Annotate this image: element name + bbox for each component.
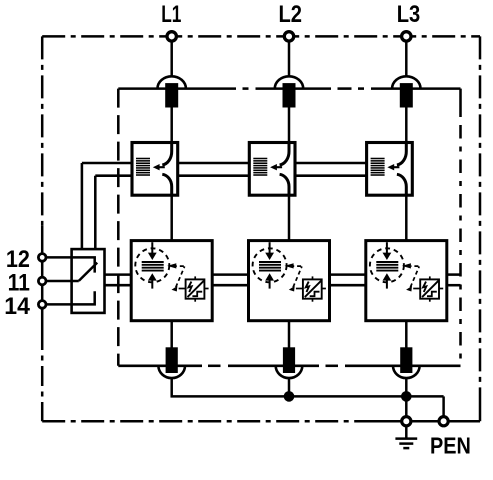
svg-text:PEN: PEN: [430, 432, 471, 459]
junction: [401, 391, 412, 402]
trigger lightning arrow (dashed): [176, 266, 185, 288]
wire: [170, 195, 173, 240]
wire: [170, 41, 173, 77]
triggered spark gap (dashed circle): [135, 248, 169, 282]
top compression arrow: [148, 242, 157, 260]
spark gap electrode stack: [259, 262, 281, 271]
terminal L1: [167, 32, 176, 41]
varistor terminals: [300, 276, 326, 301]
wire: [46, 303, 72, 306]
top horn electrode: [162, 143, 171, 166]
terminal 12: [38, 254, 46, 262]
varistor terminals: [417, 276, 443, 301]
bottom plug-in contact L3 (socket arch): [393, 366, 420, 378]
top horn electrode: [397, 143, 406, 166]
triggered spark gap (dashed circle): [370, 248, 404, 282]
bottom compression arrow: [383, 273, 392, 288]
wire: [288, 41, 291, 77]
spark gap electrode stack: [142, 262, 164, 271]
wire: [442, 396, 445, 417]
svg-text:L2: L2: [278, 1, 302, 28]
mechanical linkage line (upper) switch to spark gaps: [82, 163, 367, 249]
inner protection-module border (dash-dot): [118, 89, 460, 366]
svg-text:12: 12: [6, 245, 30, 272]
wire: [170, 378, 173, 398]
spark gap switching element (phase L2): [249, 143, 295, 196]
wire: [170, 321, 173, 348]
varistor / suppressor element: [420, 279, 439, 298]
svg-text:14: 14: [4, 292, 30, 319]
terminal 11: [38, 277, 46, 285]
remote signalling changeover contact (12/11/14): [72, 249, 105, 313]
bottom plug-in contact L2 (blade): [283, 347, 295, 373]
trigger lightning arrow (dashed): [293, 266, 302, 288]
bottom compression arrow: [265, 273, 274, 288]
surge bolt glyph: [306, 282, 309, 292]
plug-in contact L1 (blade): [165, 83, 178, 107]
wire: [405, 321, 408, 348]
bottom horn electrode: [397, 174, 406, 195]
wire: [288, 108, 291, 143]
linkage drop to signalling contact: [81, 163, 84, 249]
bottom compression arrow: [148, 273, 157, 288]
outer enclosure border (dash-dot): [42, 36, 480, 421]
arc direction arrow: [153, 164, 165, 170]
junction: [284, 391, 295, 402]
combined arrester module (spark gap + varistor), phase L1: [131, 241, 212, 321]
varistor / suppressor element: [186, 279, 205, 298]
ground: [395, 426, 417, 448]
svg-text:L3: L3: [397, 1, 421, 28]
movable contact arm (common 11): [79, 263, 97, 281]
plug-in contact L1 (socket arch): [158, 76, 186, 88]
wire: [288, 378, 291, 398]
spark gap electrode stack: [136, 159, 150, 176]
plug-in contact L3 (blade): [400, 83, 413, 107]
surge bolt glyph: [189, 282, 192, 292]
step response glyph: [427, 292, 437, 297]
wire: [288, 321, 291, 348]
surge bolt glyph: [423, 282, 426, 292]
spark gap switching element (phase L1): [132, 143, 178, 196]
contact 14 (NO path): [72, 291, 95, 304]
wire: [46, 256, 72, 259]
step response glyph: [310, 292, 320, 297]
bottom horn electrode: [162, 174, 171, 195]
terminal L3: [402, 32, 411, 41]
terminal 14: [38, 301, 46, 309]
combined arrester module (spark gap + varistor), phase L2: [249, 241, 330, 321]
bottom plug-in contact L2 (socket arch): [276, 366, 303, 378]
wire: [288, 195, 291, 240]
triggered spark gap (dashed circle): [253, 248, 287, 282]
plug-in contact L2 (socket arch): [275, 76, 303, 88]
step response glyph: [192, 292, 202, 297]
plug-in contact L3 (socket arch): [392, 76, 420, 88]
wire: [405, 195, 408, 240]
varistor / suppressor element: [303, 279, 322, 298]
top compression arrow: [265, 242, 274, 260]
bottom plug-in contact L3 (blade): [400, 347, 412, 373]
top compression arrow: [383, 242, 392, 260]
PE collecting bus wire: [171, 395, 444, 398]
module interconnection lines (lower row): [105, 275, 461, 286]
spark gap electrode stack: [371, 159, 385, 176]
spark gap electrode stack: [253, 159, 267, 176]
arc direction arrow: [270, 164, 282, 170]
arc direction arrow: [387, 164, 399, 170]
wire: [405, 396, 408, 417]
spark gap switching element (phase L3): [367, 143, 413, 196]
wire: [405, 108, 408, 143]
trigger lightning arrow (dashed): [410, 266, 419, 288]
contact 12 (NC path): [72, 257, 95, 272]
wire: [405, 41, 408, 77]
bottom plug-in contact L1 (socket arch): [158, 366, 185, 378]
combined arrester module (spark gap + varistor), phase L3: [366, 241, 447, 321]
spark gap electrode stack: [376, 262, 398, 271]
varistor terminals: [182, 276, 208, 301]
terminal PEN (left): [402, 417, 411, 426]
plug-in contact L2 (blade): [283, 83, 296, 107]
terminal L2: [284, 32, 293, 41]
bottom horn electrode: [280, 174, 289, 195]
wire: [170, 108, 173, 143]
svg-text:L1: L1: [161, 2, 181, 28]
bottom plug-in contact L1 (blade): [166, 347, 178, 373]
terminal PEN (right): [439, 417, 448, 426]
wire: [405, 378, 408, 398]
top horn electrode: [280, 143, 289, 166]
wire: [46, 280, 79, 283]
